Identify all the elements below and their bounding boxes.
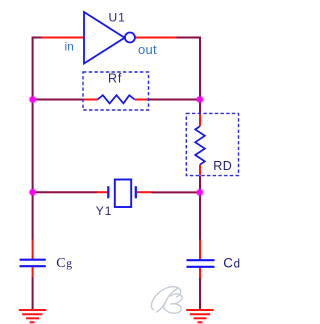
crystal Y1: [108, 180, 136, 208]
resistor Rf: [83, 72, 149, 110]
wire left rail to Cg: [32, 192, 34, 240]
wire top-left L (node in): [33, 38, 43, 100]
capacitor Cd: [187, 260, 215, 267]
wire red stub below Cg: [32, 267, 34, 279]
resistor RD: [186, 113, 238, 175]
ground left: [19, 310, 47, 322]
node in-Rf junction: [28, 95, 36, 103]
wire red stub right of Y1: [137, 191, 153, 193]
wire left rail middle: [32, 100, 34, 193]
wire red stub below Cd: [199, 267, 201, 279]
wire Rf row right maroon: [148, 99, 200, 101]
svg-text:RD: RD: [213, 159, 232, 173]
wire top-right L (node out): [177, 38, 201, 100]
watermark: [151, 287, 182, 314]
svg-text:in: in: [65, 39, 74, 53]
svg-text:U1: U1: [109, 11, 126, 25]
wire right rail dot to RD box: [199, 100, 201, 114]
node out-Rf junction: [196, 95, 204, 103]
wire red stub above Cd: [199, 240, 201, 261]
wire right rail RD box to crystal row: [199, 175, 201, 192]
node RD-Y1 junction: [196, 188, 204, 196]
svg-text:Cd: Cd: [223, 255, 240, 270]
svg-text:Cg: Cg: [56, 256, 72, 271]
wire Rf row left maroon: [33, 99, 84, 101]
wire red stub above Cg: [32, 240, 34, 260]
wire right rail to ground: [199, 278, 201, 310]
wire crystal row left maroon: [33, 191, 98, 193]
svg-text:Y1: Y1: [96, 204, 113, 218]
capacitor Cg: [20, 260, 46, 267]
wire right rail to Cd: [199, 192, 201, 240]
op-amp U1 inverter triangle: [84, 12, 135, 64]
wire input stub red: [42, 37, 85, 39]
wire red stub left of Y1: [97, 191, 108, 193]
svg-text:out: out: [138, 42, 157, 57]
ground right: [186, 310, 214, 322]
wire crystal row right maroon: [152, 191, 201, 193]
wire left rail to ground: [32, 278, 34, 310]
svg-text:Rf: Rf: [108, 72, 122, 86]
node in-Y1 junction: [28, 188, 36, 196]
wire output stub red: [135, 37, 178, 39]
